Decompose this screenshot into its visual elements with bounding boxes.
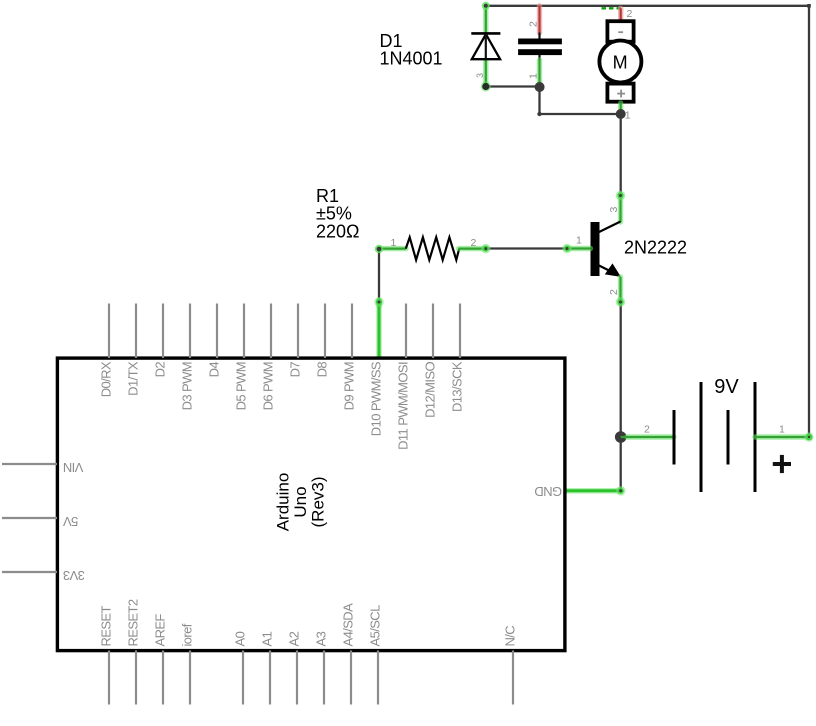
transistor Q1 collector lead: [618, 195, 623, 223]
svg-text:VIN: VIN: [63, 460, 83, 475]
svg-text:D6 PWM: D6 PWM: [261, 362, 276, 410]
resistor R1 lead 1: [379, 246, 406, 251]
svg-text:GND: GND: [535, 484, 562, 499]
wire battery node down to GND lead: [620, 437, 622, 491]
svg-text:AREF: AREF: [153, 614, 168, 647]
svg-text:2: 2: [528, 21, 540, 27]
svg-text:1: 1: [391, 237, 397, 249]
svg-text:M: M: [613, 53, 628, 73]
svg-text:2: 2: [627, 8, 633, 20]
svg-text:2: 2: [644, 424, 650, 436]
capacitor C1 lead bottom: [538, 55, 540, 61]
svg-text:D11 PWM/MOSI: D11 PWM/MOSI: [396, 362, 411, 450]
Arduino bottom pin stubs: [109, 651, 513, 705]
endpoint collector: [616, 191, 626, 201]
junction motor minus node: [616, 109, 626, 119]
endpoint battery plus wire: [804, 432, 813, 441]
resistor R1 lead 2: [459, 246, 487, 251]
svg-text:Arduino: Arduino: [274, 473, 293, 532]
svg-text:D3 PWM: D3 PWM: [180, 362, 195, 410]
svg-text:1: 1: [625, 110, 631, 122]
battery BAT1 lead 2: [621, 434, 674, 439]
diode D1 lead bottom: [483, 59, 488, 87]
battery BAT1 lead 1: [755, 434, 809, 439]
svg-text:A5/SCL: A5/SCL: [368, 605, 383, 647]
bendpoint resistor pin1: [375, 245, 383, 253]
Arduino bottom pin labels: [99, 599, 518, 646]
svg-text:D4: D4: [207, 362, 222, 378]
wire D10 green vertical: [376, 300, 381, 306]
svg-text:D1/TX: D1/TX: [126, 361, 141, 396]
Arduino U1 body: [57, 358, 565, 650]
capacitor C1 plates: [518, 39, 562, 56]
junction diode-cap node: [535, 82, 545, 92]
Arduino top pin labels: [99, 361, 465, 450]
wire top net V+: [486, 6, 809, 437]
bendpoint at cap column: [537, 112, 541, 116]
transistor Q1 emitter lead: [618, 277, 623, 303]
transistor Q1 base lead: [567, 246, 591, 251]
svg-text:(Rev3): (Rev3): [309, 476, 328, 527]
svg-text:2: 2: [471, 237, 477, 249]
motor M1 lead top red: [618, 8, 623, 27]
svg-text:D5 PWM: D5 PWM: [234, 362, 249, 410]
svg-text:D2: D2: [153, 362, 168, 378]
svg-text:RESET2: RESET2: [126, 599, 141, 646]
svg-text:1N4001: 1N4001: [380, 49, 443, 69]
wire resistor pin1 down to D10: [378, 249, 380, 300]
wire motor node down to collector: [620, 114, 622, 195]
svg-text:A0: A0: [233, 631, 248, 646]
Arduino left pin labels: [63, 460, 85, 583]
svg-text:A4/SDA: A4/SDA: [341, 603, 356, 647]
Arduino top pin stubs: [109, 304, 460, 359]
bendpoint top right corner: [807, 4, 811, 8]
svg-text:RESET: RESET: [99, 605, 114, 646]
svg-text:D9 PWM: D9 PWM: [342, 362, 357, 410]
endpoint D10: [374, 297, 384, 307]
svg-text:2N2222: 2N2222: [624, 238, 687, 258]
svg-text:1: 1: [528, 73, 540, 79]
svg-text:ioref: ioref: [180, 623, 195, 646]
svg-text:1: 1: [779, 424, 785, 436]
battery node junction: [615, 431, 627, 443]
svg-text:D10 PWM/SS: D10 PWM/SS: [369, 361, 384, 436]
motor M1 body: [599, 21, 641, 102]
wire emitter down to battery node: [620, 303, 622, 437]
endpoint emitter: [616, 297, 626, 307]
svg-text:3V3: 3V3: [63, 568, 85, 583]
diode D1 symbol: [471, 33, 500, 59]
GND lead green: [565, 488, 621, 494]
wire cap junction down: [538, 87, 540, 115]
endpoint base: [562, 244, 572, 254]
svg-text:D0/RX: D0/RX: [99, 361, 114, 397]
endpoint GND wire: [616, 486, 626, 496]
svg-text:D7: D7: [288, 362, 303, 378]
motor M1 lead bottom: [618, 103, 623, 114]
svg-text:5V: 5V: [63, 514, 79, 529]
svg-text:3: 3: [608, 207, 620, 213]
svg-text:D12/MISO: D12/MISO: [423, 362, 438, 418]
svg-text:N/C: N/C: [503, 626, 518, 647]
svg-text:A1: A1: [260, 631, 275, 646]
transistor Q1 symbol: [591, 222, 621, 277]
svg-text:3: 3: [475, 73, 485, 78]
capacitor C1 lead top red: [537, 6, 542, 33]
svg-text:220Ω: 220Ω: [316, 221, 360, 241]
svg-text:Uno: Uno: [291, 486, 310, 517]
endpoint diode bottom: [481, 82, 491, 92]
bendpoint top left corner: [482, 2, 490, 10]
resistor R1 zigzag: [406, 237, 459, 260]
diode D1 lead top: [483, 6, 488, 33]
svg-text:D8: D8: [315, 362, 330, 378]
wire junction to motor minus node: [540, 113, 621, 115]
pin stub D10 green: [376, 304, 382, 359]
wire resistor to base: [486, 247, 567, 249]
motor M1 dashes top: [602, 7, 622, 9]
svg-text:A2: A2: [287, 631, 302, 646]
Arduino center label: [274, 473, 328, 532]
battery plus sign: [773, 455, 791, 473]
svg-text:D13/SCK: D13/SCK: [450, 361, 465, 412]
svg-text:9V: 9V: [714, 376, 739, 398]
svg-text:1: 1: [576, 235, 582, 247]
wire diode bottom to cap junction: [486, 85, 540, 87]
battery BAT1 plates: [674, 382, 755, 492]
svg-text:2: 2: [608, 289, 620, 295]
capacitor C1 stub top: [538, 33, 540, 40]
Arduino left pin stubs: [2, 464, 57, 572]
endpoint resistor pin2: [481, 244, 491, 254]
svg-text:A3: A3: [314, 631, 329, 646]
